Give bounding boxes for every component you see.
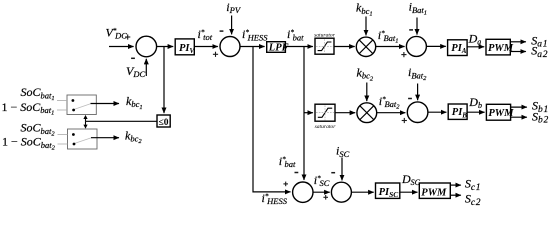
svg-text:iBat1: iBat1 bbox=[409, 0, 427, 16]
wire iHESS* branch down and to bottom summing junction bbox=[253, 47, 291, 192]
wire Sc1 output bbox=[450, 184, 461, 186]
svg-text:1 − SoCbat1: 1 − SoCbat1 bbox=[2, 100, 55, 117]
svg-text:i*bat: i*bat bbox=[279, 154, 296, 169]
wire iBat1 down into S3 bbox=[416, 18, 418, 35]
wire Vdc* input bbox=[109, 46, 134, 48]
svg-text:Db: Db bbox=[468, 95, 482, 110]
svg-text:i*HESS: i*HESS bbox=[242, 27, 268, 42]
wire saturator1 to multiplier M1 bbox=[334, 46, 355, 48]
sign minus at S5 bbox=[295, 172, 299, 174]
svg-text:i*SC: i*SC bbox=[314, 173, 330, 188]
wire iPV down into S2 bbox=[231, 16, 233, 35]
wire M1 to S3 bbox=[376, 46, 405, 48]
wire S3 to PIA bbox=[426, 45, 445, 47]
svg-text:PWM: PWM bbox=[421, 187, 447, 198]
wire SW1 output kbc1 bbox=[91, 103, 120, 105]
summing junction S3 (battery1 current error) bbox=[406, 36, 426, 56]
saturator1 curve bbox=[318, 42, 332, 51]
wire iSC down into S6 bbox=[341, 158, 343, 181]
wire ibat* branch to saturator2 bbox=[304, 112, 313, 114]
sign plus at S1 bbox=[125, 34, 130, 39]
svg-text:i*Bat1: i*Bat1 bbox=[378, 28, 399, 45]
block saturator1 bbox=[315, 38, 334, 54]
svg-text:PWM: PWM bbox=[488, 43, 514, 54]
sign minus at S2 bbox=[220, 30, 224, 32]
wire le0 to switch selector bbox=[86, 120, 158, 122]
block PWM1 bbox=[486, 39, 510, 55]
block PIA bbox=[448, 40, 468, 56]
block saturator2 bbox=[315, 104, 335, 121]
saturator2 axes bbox=[316, 105, 334, 120]
switch box SW2 bbox=[68, 129, 98, 149]
ROW1-TEXT bbox=[106, 0, 549, 79]
summing junction S1 (voltage error) bbox=[136, 36, 157, 57]
switch box SW1 bbox=[67, 95, 96, 115]
block PWM3 bbox=[419, 183, 450, 198]
wire S1 to PIv bbox=[157, 46, 174, 48]
wire S5 to S6 bbox=[313, 191, 330, 193]
wire SW2 output kbc2 bbox=[91, 137, 119, 139]
wire PIsc to PWM3 bbox=[400, 191, 418, 193]
block PWM2 bbox=[486, 104, 510, 120]
summing junction S5 (iSC* = iHESS* - ibat*) bbox=[293, 182, 313, 202]
svg-text:i*HESS: i*HESS bbox=[262, 191, 288, 206]
svg-text:i*bat: i*bat bbox=[287, 27, 304, 42]
svg-text:kbc1: kbc1 bbox=[356, 1, 373, 18]
svg-text:Da: Da bbox=[468, 32, 482, 47]
wire saturator2 to multiplier M2 bbox=[335, 112, 355, 114]
sign plus at S5 bbox=[283, 182, 288, 187]
wire Sb2 output bbox=[511, 116, 527, 118]
multiplier M1 bbox=[356, 37, 375, 56]
svg-text:DSC: DSC bbox=[401, 172, 421, 187]
sign minus at S4 bbox=[408, 98, 412, 100]
svg-text:PIB: PIB bbox=[452, 107, 468, 119]
block le0 bbox=[157, 115, 170, 127]
svg-text:saturator: saturator bbox=[315, 124, 337, 130]
block PIsc bbox=[376, 183, 400, 198]
wire ibat* branch down to bottom summing junction bbox=[303, 47, 305, 181]
wire S6 to PIsc bbox=[351, 191, 373, 193]
svg-text:kbc1: kbc1 bbox=[126, 94, 143, 111]
block LPF bbox=[267, 42, 286, 53]
wire Sa1 output bbox=[510, 41, 526, 43]
ROW2-TEXT bbox=[315, 65, 549, 130]
wire PIB to PWM2 bbox=[467, 111, 485, 113]
wire Sa2 output bbox=[510, 51, 526, 53]
saturator1 axes bbox=[316, 39, 333, 53]
svg-text:1 − SoCbat2: 1 − SoCbat2 bbox=[2, 135, 56, 152]
svg-text:PISC: PISC bbox=[379, 187, 400, 199]
SW2 input stubs bbox=[58, 134, 68, 136]
svg-text:saturator: saturator bbox=[314, 32, 336, 38]
wire iBat2 down into S4 bbox=[417, 84, 419, 101]
SW1 input stubs bbox=[57, 100, 67, 102]
sign plus at S3 bbox=[401, 52, 406, 57]
wire PIv to S2 bbox=[194, 46, 218, 48]
svg-text:i*tot: i*tot bbox=[198, 27, 213, 42]
summing junction S4 (battery2 current error) bbox=[407, 102, 428, 123]
sign plus at S2 bbox=[213, 52, 218, 57]
block PIv bbox=[175, 39, 194, 55]
sign minus at S1 bbox=[131, 57, 135, 59]
wire selector down into SW2 bbox=[85, 121, 87, 125]
svg-text:iPV: iPV bbox=[226, 0, 242, 15]
saturator2 curve bbox=[318, 108, 332, 117]
svg-text:PIV: PIV bbox=[179, 43, 196, 55]
wire kbc2 down into M2 bbox=[366, 83, 368, 102]
wire Sc2 output bbox=[450, 194, 461, 196]
sign minus at S6 bbox=[331, 172, 335, 174]
svg-text:≤0: ≤0 bbox=[159, 118, 169, 128]
svg-text:V*DC: V*DC bbox=[106, 25, 128, 40]
svg-text:LPF: LPF bbox=[268, 42, 289, 53]
sign plus at S6 bbox=[323, 195, 328, 200]
ROW3-TEXT bbox=[262, 144, 482, 208]
wire S2 to LPF bbox=[240, 46, 265, 48]
svg-text:PWM: PWM bbox=[488, 108, 514, 119]
wire Vdc feedback up into S1 bbox=[145, 59, 147, 76]
wire branch itot* down to le0 block bbox=[163, 47, 165, 114]
svg-text:PIA: PIA bbox=[451, 43, 467, 55]
svg-text:iSC: iSC bbox=[336, 144, 350, 159]
svg-text:Sc2: Sc2 bbox=[465, 191, 481, 207]
svg-text:kbc2: kbc2 bbox=[125, 128, 142, 145]
wire Sb1 output bbox=[511, 106, 527, 108]
SW1 contact dots bbox=[72, 99, 75, 102]
wire selector up into SW1 bbox=[85, 118, 87, 121]
wire kbc1 down into M1 bbox=[365, 17, 367, 36]
svg-text:kbc2: kbc2 bbox=[357, 66, 374, 83]
wire M2 to S4 bbox=[377, 112, 406, 114]
svg-text:i*Bat2: i*Bat2 bbox=[379, 94, 400, 111]
summing junction S2 (subtract iPV) bbox=[220, 37, 240, 57]
LEFT-TEXT bbox=[2, 85, 169, 151]
wire S4 to PIB bbox=[428, 111, 447, 113]
multiplier M2 bbox=[357, 103, 377, 123]
SW2 lever bbox=[75, 138, 91, 143]
wire LPF to saturator1 bbox=[285, 46, 313, 48]
sign minus at S3 bbox=[409, 29, 413, 31]
wire PIA to PWM1 bbox=[467, 46, 484, 48]
SW1 lever bbox=[75, 104, 91, 109]
svg-text:VDC: VDC bbox=[126, 64, 145, 79]
SW2 contact dots bbox=[72, 133, 75, 136]
sign plus at S4 bbox=[402, 118, 407, 123]
summing junction S6 (SC current error) bbox=[331, 182, 351, 202]
block PIB bbox=[448, 104, 467, 119]
svg-text:iBat2: iBat2 bbox=[408, 65, 427, 82]
